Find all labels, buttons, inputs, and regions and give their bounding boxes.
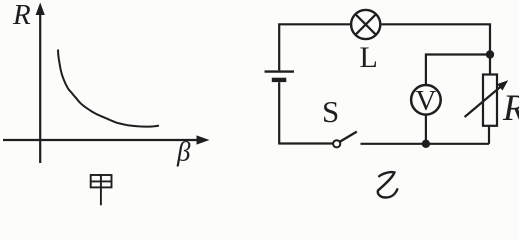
y-axis arrowhead — [36, 3, 45, 16]
switch pivot circle — [333, 140, 340, 147]
rheostat arrow — [465, 86, 502, 118]
battery short plate — [272, 78, 287, 82]
svg-text:β: β — [176, 137, 191, 167]
svg-text:V: V — [415, 85, 436, 117]
junction dot right top — [486, 50, 494, 58]
lamp X cross — [355, 14, 376, 35]
junction dot bottom — [422, 140, 430, 148]
wire bottom right (switch to right corner) — [361, 143, 490, 145]
curve R vs beta — [58, 50, 159, 127]
rheostat arrowhead — [497, 80, 508, 90]
wire left (battery to bottom) — [278, 82, 280, 143]
voltmeter wire bottom — [425, 116, 427, 144]
label jia (left figure caption) — [91, 175, 112, 205]
battery long plate — [265, 70, 295, 72]
voltmeter wire top — [426, 55, 490, 85]
svg-text:S: S — [322, 94, 339, 129]
rheostat wire bottom — [488, 126, 490, 144]
lamp L circle — [351, 10, 380, 39]
svg-text:L: L — [360, 41, 378, 74]
switch lever — [340, 132, 357, 142]
wire top (left segment, battery to lamp) — [279, 24, 350, 70]
y-axis — [39, 12, 41, 163]
wire top (lamp to right branch) — [381, 24, 490, 74]
svg-text:R: R — [502, 87, 519, 128]
svg-text:R: R — [12, 0, 31, 31]
x-axis — [3, 139, 198, 141]
voltmeter circle — [411, 85, 441, 115]
label yi (right figure caption) — [378, 172, 398, 197]
wire bottom left (to switch) — [279, 144, 333, 145]
x-axis arrowhead — [197, 135, 210, 144]
rheostat body — [483, 75, 497, 126]
